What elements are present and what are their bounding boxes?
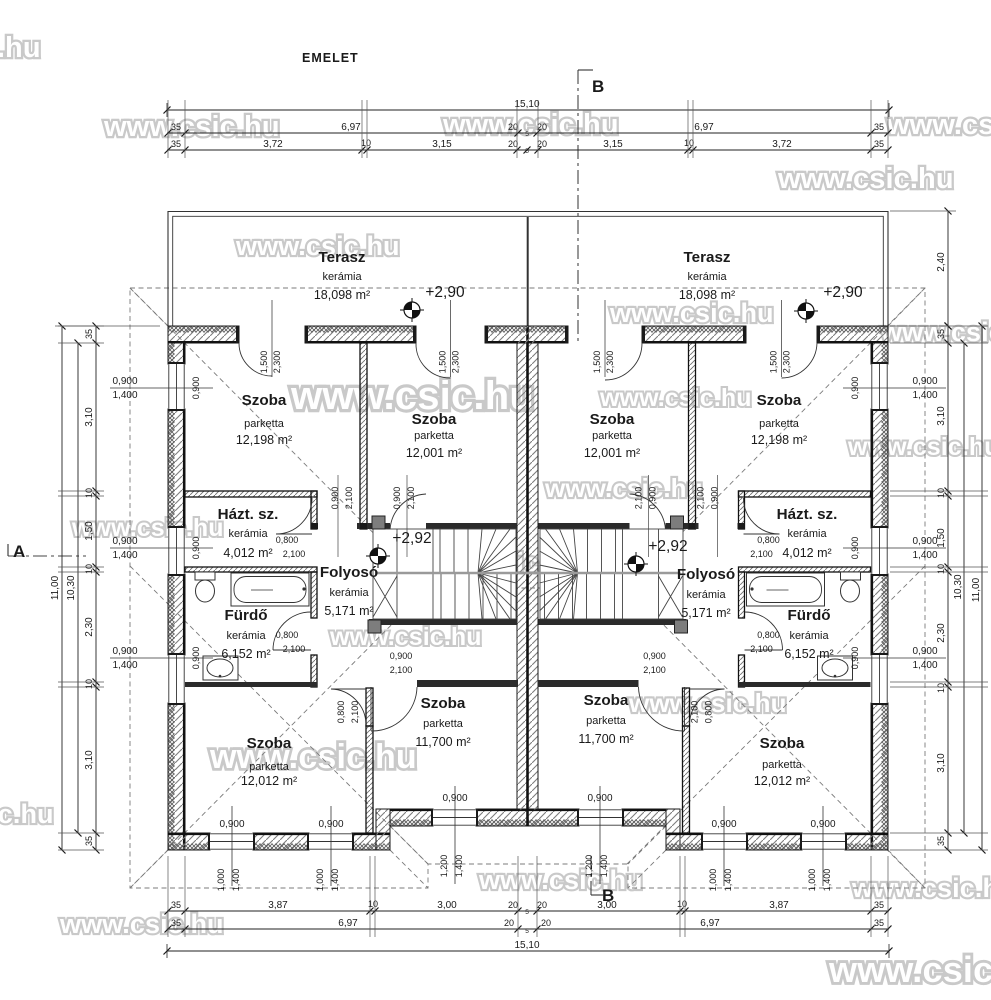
svg-text:2,300: 2,300	[782, 351, 792, 374]
svg-text:10: 10	[684, 138, 694, 148]
section B-B bottom	[590, 856, 592, 895]
svg-text:parketta: parketta	[244, 418, 285, 430]
bottom walls	[168, 833, 210, 850]
svg-text:Folyosó: Folyosó	[677, 566, 735, 583]
svg-text:35: 35	[936, 836, 946, 846]
svg-text:4,012 m²: 4,012 m²	[782, 546, 831, 560]
svg-text:kerámia: kerámia	[789, 630, 829, 642]
svg-text:www.csic.hu: www.csic.hu	[599, 384, 752, 412]
svg-text:parketta: parketta	[249, 761, 290, 773]
svg-text:0,800: 0,800	[276, 535, 299, 545]
terrace slab edge double line	[168, 212, 888, 327]
svg-text:6,152 m²: 6,152 m²	[784, 647, 833, 661]
svg-text:parketta: parketta	[762, 759, 803, 771]
svg-text:35: 35	[936, 329, 946, 339]
svg-text:3,10: 3,10	[936, 406, 947, 426]
svg-text:2,100: 2,100	[283, 549, 306, 559]
terrace doors with arcs	[271, 300, 273, 377]
svg-text:6,152 m²: 6,152 m²	[221, 647, 270, 661]
svg-text:3,15: 3,15	[603, 139, 623, 150]
svg-text:11,00: 11,00	[971, 577, 982, 602]
svg-text:B: B	[592, 77, 604, 96]
svg-text:3,87: 3,87	[268, 900, 288, 911]
svg-text:35: 35	[874, 918, 884, 928]
roof eave dashed outline	[130, 288, 925, 888]
svg-text:20: 20	[537, 139, 547, 149]
svg-text:10: 10	[361, 138, 371, 148]
svg-text:0,900: 0,900	[912, 536, 937, 547]
columns	[372, 516, 385, 529]
terrace divider line	[527, 217, 529, 326]
exterior walls	[168, 326, 239, 343]
svg-text:Szoba: Szoba	[412, 411, 457, 428]
svg-text:6,97: 6,97	[700, 918, 720, 929]
svg-text:0,900: 0,900	[191, 377, 201, 400]
svg-text:www.csic.hu: www.csic.hu	[442, 109, 619, 141]
svg-text:20: 20	[504, 918, 514, 928]
svg-text:3,10: 3,10	[936, 753, 947, 773]
svg-text:1,400: 1,400	[912, 390, 937, 401]
svg-text:10: 10	[84, 564, 94, 574]
svg-text:0,900: 0,900	[392, 487, 402, 510]
svg-text:Szoba: Szoba	[760, 735, 805, 752]
svg-text:6,97: 6,97	[338, 918, 358, 929]
svg-text:Fürdő: Fürdő	[224, 607, 267, 624]
svg-text:5: 5	[525, 148, 529, 155]
svg-text:2,100: 2,100	[350, 701, 360, 724]
svg-text:11,700 m²: 11,700 m²	[578, 732, 633, 746]
svg-text:Folyosó: Folyosó	[320, 564, 378, 581]
svg-text:www.csic.hu: www.csic.hu	[828, 949, 991, 990]
section B-B top	[577, 70, 579, 345]
svg-text:1,000: 1,000	[315, 869, 325, 892]
svg-text:20: 20	[508, 900, 518, 910]
svg-text:1,400: 1,400	[330, 869, 340, 892]
svg-text:1,500: 1,500	[438, 351, 448, 374]
svg-text:Fürdő: Fürdő	[787, 607, 830, 624]
svg-text:35: 35	[874, 139, 884, 149]
svg-text:12,001 m²: 12,001 m²	[584, 446, 640, 460]
svg-text:10: 10	[936, 564, 946, 574]
svg-text:18,098 m²: 18,098 m²	[314, 288, 370, 302]
svg-text:0,900: 0,900	[643, 651, 666, 661]
svg-text:11,700 m²: 11,700 m²	[415, 735, 470, 749]
svg-text:1,400: 1,400	[723, 869, 733, 892]
svg-text:www.csic.hu: www.csic.hu	[886, 109, 991, 141]
svg-text:1,400: 1,400	[822, 869, 832, 892]
svg-text:2,100: 2,100	[750, 644, 773, 654]
svg-text:3,00: 3,00	[597, 900, 617, 911]
svg-text:+2,90: +2,90	[823, 284, 863, 301]
svg-text:www.csic.hu: www.csic.hu	[329, 623, 482, 651]
svg-text:12,198 m²: 12,198 m²	[751, 433, 807, 447]
svg-text:1,400: 1,400	[599, 855, 609, 878]
svg-text:5: 5	[525, 131, 529, 138]
svg-text:35: 35	[84, 329, 94, 339]
interior walls left unit	[185, 491, 317, 497]
svg-text:www.csic.hu: www.csic.hu	[478, 865, 643, 895]
svg-text:1,400: 1,400	[912, 550, 937, 561]
svg-text:0,800: 0,800	[757, 535, 780, 545]
svg-text:0,900: 0,900	[112, 646, 137, 657]
svg-text:10,30: 10,30	[953, 574, 964, 599]
svg-text:35: 35	[171, 900, 181, 910]
svg-text:kerámia: kerámia	[686, 589, 726, 601]
svg-text:35: 35	[171, 122, 181, 132]
svg-text:0,900: 0,900	[330, 487, 340, 510]
svg-text:A: A	[13, 542, 25, 561]
svg-text:www.csic.hu: www.csic.hu	[0, 32, 41, 64]
svg-text:11,00: 11,00	[50, 575, 61, 600]
svg-text:5: 5	[525, 909, 529, 916]
svg-text:Terasz: Terasz	[684, 249, 731, 266]
left exterior wall	[168, 343, 185, 364]
svg-text:2,30: 2,30	[936, 623, 947, 643]
svg-text:15,10: 15,10	[514, 99, 539, 110]
svg-text:2,100: 2,100	[390, 665, 413, 675]
svg-text:1,400: 1,400	[112, 550, 137, 561]
svg-text:kerámia: kerámia	[787, 528, 827, 540]
svg-text:1,200: 1,200	[439, 855, 449, 878]
svg-text:1,400: 1,400	[112, 660, 137, 671]
bottom dimension chains	[167, 910, 889, 912]
svg-text:kerámia: kerámia	[329, 587, 369, 599]
svg-text:1,500: 1,500	[259, 351, 269, 374]
svg-text:10: 10	[84, 488, 94, 498]
svg-text:12,012 m²: 12,012 m²	[241, 774, 297, 788]
svg-text:+2,90: +2,90	[425, 284, 465, 301]
svg-text:20: 20	[537, 122, 547, 132]
svg-text:1,400: 1,400	[231, 869, 241, 892]
svg-text:4,012 m²: 4,012 m²	[223, 546, 272, 560]
svg-text:35: 35	[874, 122, 884, 132]
svg-text:3,72: 3,72	[772, 139, 792, 150]
svg-text:0,800: 0,800	[276, 630, 299, 640]
svg-text:10,30: 10,30	[66, 575, 77, 600]
svg-text:kerámia: kerámia	[687, 271, 727, 283]
svg-text:3,10: 3,10	[84, 407, 95, 427]
svg-text:0,900: 0,900	[710, 487, 720, 510]
left dimension chains	[95, 326, 97, 850]
stairs left unit	[373, 529, 516, 619]
svg-text:20: 20	[508, 139, 518, 149]
svg-text:5,171 m²: 5,171 m²	[324, 604, 373, 618]
svg-text:2,300: 2,300	[272, 351, 282, 374]
svg-text:parketta: parketta	[414, 430, 455, 442]
svg-text:Házt. sz.: Házt. sz.	[777, 506, 838, 523]
svg-text:2,30: 2,30	[84, 617, 95, 637]
svg-text:0,800: 0,800	[704, 701, 714, 724]
windows	[168, 364, 185, 409]
svg-text:3,10: 3,10	[84, 750, 95, 770]
svg-text:1,50: 1,50	[936, 528, 947, 548]
svg-text:1,500: 1,500	[769, 351, 779, 374]
svg-text:EMELET: EMELET	[302, 51, 359, 65]
svg-text:0,900: 0,900	[112, 536, 137, 547]
svg-text:Terasz: Terasz	[319, 249, 366, 266]
svg-text:1,000: 1,000	[708, 869, 718, 892]
svg-text:1,400: 1,400	[454, 855, 464, 878]
svg-text:parketta: parketta	[592, 430, 633, 442]
svg-text:2,300: 2,300	[451, 351, 461, 374]
svg-text:10: 10	[368, 899, 378, 909]
svg-text:1,000: 1,000	[807, 869, 817, 892]
right dimension chains	[947, 211, 949, 326]
svg-text:parketta: parketta	[759, 418, 800, 430]
svg-text:12,012 m²: 12,012 m²	[754, 774, 810, 788]
svg-text:Szoba: Szoba	[421, 695, 466, 712]
svg-text:www.csic.hu: www.csic.hu	[847, 433, 991, 461]
svg-text:www.csic.hu: www.csic.hu	[59, 909, 224, 939]
svg-text:12,001 m²: 12,001 m²	[406, 446, 462, 460]
svg-text:Szoba: Szoba	[757, 392, 802, 409]
svg-text:0,800: 0,800	[336, 701, 346, 724]
party wall	[517, 343, 538, 810]
svg-text:1,400: 1,400	[112, 390, 137, 401]
svg-text:18,098 m²: 18,098 m²	[679, 288, 735, 302]
svg-text:3,15: 3,15	[432, 139, 452, 150]
svg-text:12,198 m²: 12,198 m²	[236, 433, 292, 447]
svg-text:2,300: 2,300	[605, 351, 615, 374]
svg-text:10: 10	[677, 899, 687, 909]
svg-text:1,50: 1,50	[84, 521, 95, 541]
svg-text:www.csic.hu: www.csic.hu	[544, 473, 703, 503]
svg-text:parketta: parketta	[586, 715, 627, 727]
svg-text:0,800: 0,800	[757, 630, 780, 640]
svg-text:3,72: 3,72	[263, 139, 283, 150]
svg-text:15,10: 15,10	[514, 940, 539, 951]
svg-text:+2,92: +2,92	[648, 538, 687, 555]
svg-text:3,87: 3,87	[769, 900, 789, 911]
svg-text:0,900: 0,900	[191, 647, 201, 670]
svg-text:2,100: 2,100	[750, 549, 773, 559]
svg-text:35: 35	[874, 900, 884, 910]
svg-text:0,900: 0,900	[850, 537, 860, 560]
svg-text:10: 10	[84, 679, 94, 689]
svg-text:20: 20	[537, 900, 547, 910]
svg-text:6,97: 6,97	[694, 122, 714, 133]
svg-text:kerámia: kerámia	[226, 630, 266, 642]
svg-text:1,200: 1,200	[584, 855, 594, 878]
svg-text:2,100: 2,100	[344, 487, 354, 510]
sinks	[203, 656, 238, 680]
svg-text:3,00: 3,00	[437, 900, 457, 911]
svg-text:Szoba: Szoba	[247, 735, 292, 752]
svg-text:2,100: 2,100	[283, 644, 306, 654]
svg-text:2,100: 2,100	[643, 665, 666, 675]
svg-text:1,500: 1,500	[592, 351, 602, 374]
svg-text:2,100: 2,100	[406, 487, 416, 510]
svg-text:www.csic.hu: www.csic.hu	[209, 738, 417, 776]
svg-text:kerámia: kerámia	[228, 528, 268, 540]
svg-text:1,400: 1,400	[912, 660, 937, 671]
svg-text:35: 35	[171, 918, 181, 928]
svg-text:Házt. sz.: Házt. sz.	[218, 506, 279, 523]
svg-text:35: 35	[171, 139, 181, 149]
svg-text:2,100: 2,100	[696, 487, 706, 510]
interior doors left unit	[276, 498, 312, 534]
svg-text:www.csic.hu: www.csic.hu	[777, 163, 954, 195]
svg-text:0,900: 0,900	[850, 377, 860, 400]
svg-text:Szoba: Szoba	[242, 392, 287, 409]
svg-text:0,900: 0,900	[390, 651, 413, 661]
svg-text:kerámia: kerámia	[322, 271, 362, 283]
svg-text:www.csic.hu: www.csic.hu	[609, 298, 774, 328]
right exterior wall	[871, 343, 888, 364]
svg-text:1,000: 1,000	[216, 869, 226, 892]
toilets	[195, 572, 215, 580]
svg-text:0,900: 0,900	[912, 646, 937, 657]
svg-text:2,100: 2,100	[690, 701, 700, 724]
svg-text:35: 35	[84, 836, 94, 846]
svg-text:0,900: 0,900	[912, 376, 937, 387]
svg-text:10: 10	[936, 683, 946, 693]
svg-text:0,900: 0,900	[850, 647, 860, 670]
svg-text:20: 20	[508, 122, 518, 132]
bathtub left	[231, 573, 309, 606]
svg-text:www.csic.hu: www.csic.hu	[0, 799, 54, 829]
svg-text:www.csic.hu: www.csic.hu	[103, 111, 280, 143]
svg-text:0,900: 0,900	[648, 487, 658, 510]
top dimension chains	[167, 109, 889, 111]
svg-text:5,171 m²: 5,171 m²	[681, 606, 730, 620]
svg-text:0,900: 0,900	[191, 537, 201, 560]
svg-text:+2,92: +2,92	[392, 530, 431, 547]
svg-text:2,40: 2,40	[936, 252, 947, 272]
svg-text:2,100: 2,100	[634, 487, 644, 510]
svg-text:6,97: 6,97	[341, 122, 361, 133]
roof drain symbols	[404, 302, 420, 318]
svg-text:20: 20	[541, 918, 551, 928]
svg-text:0,900: 0,900	[112, 376, 137, 387]
svg-text:Szoba: Szoba	[584, 692, 629, 709]
svg-text:10: 10	[936, 488, 946, 498]
svg-text:www.csic.hu: www.csic.hu	[235, 231, 400, 261]
svg-text:Szoba: Szoba	[590, 411, 635, 428]
section A-A left	[8, 555, 86, 557]
svg-text:5: 5	[525, 928, 529, 935]
svg-text:parketta: parketta	[423, 718, 464, 730]
